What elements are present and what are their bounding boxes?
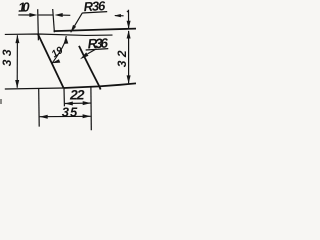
dim 32 main line bbox=[128, 31, 130, 83]
R36 #2 leader bbox=[88, 49, 97, 54]
technical drawing: template profile with dimensions bbox=[0, 0, 136, 132]
top right small arrow tail bbox=[115, 15, 124, 17]
angle 19 arc bbox=[52, 36, 66, 63]
svg-text:22: 22 bbox=[69, 87, 85, 103]
angle arc lower arrowhead bbox=[52, 59, 61, 63]
dim 10: left tail bbox=[18, 14, 31, 16]
dim 22 left arrowhead bbox=[65, 102, 73, 106]
edge speck bottom left bbox=[0, 99, 2, 104]
dim 22 right arrowhead bbox=[83, 101, 91, 105]
part top edge bbox=[54, 29, 136, 32]
svg-text:R36: R36 bbox=[87, 35, 109, 51]
hook at top of dim line bbox=[127, 11, 129, 13]
R36 #1 shelf underline bbox=[82, 12, 107, 13]
dim 35 left extension bbox=[38, 89, 41, 127]
extension line 1 (x=38) bbox=[37, 9, 40, 40]
dim 22 left extension bbox=[63, 88, 65, 106]
dim 10: right tail bbox=[60, 14, 70, 16]
dim 35 right arrowhead bbox=[83, 114, 91, 118]
extension line 2 (x=54) bbox=[53, 9, 55, 32]
part bottom edge bbox=[64, 83, 136, 88]
R36 #1 leader arrowhead bbox=[71, 25, 77, 33]
svg-text:33: 33 bbox=[0, 46, 14, 66]
angle arc upper arrowhead bbox=[64, 36, 68, 44]
extension line left of corner A and horizontal ray of angle bbox=[5, 34, 113, 35]
dim 10: left-pointing arrowhead bbox=[55, 13, 63, 17]
dim 32 up arrowhead bbox=[127, 30, 131, 38]
shared right extension for 22/35 bbox=[90, 87, 92, 130]
part left slant edge bbox=[38, 34, 64, 88]
svg-text:R36: R36 bbox=[83, 0, 106, 14]
svg-text:35: 35 bbox=[62, 105, 78, 120]
dim 32 upper tail line bbox=[128, 10, 130, 28]
dim 32 bottom down arrowhead bbox=[127, 75, 131, 83]
dim 33 line bbox=[16, 35, 18, 88]
dim 33 up arrowhead bbox=[15, 35, 19, 43]
R36 #2 leader arrowhead bbox=[80, 52, 89, 59]
part right arc R36 bbox=[79, 46, 101, 90]
dim 22 line bbox=[65, 102, 91, 104]
dim 33 down arrowhead bbox=[15, 80, 19, 88]
R36 #2 shelf underline bbox=[86, 49, 109, 50]
svg-text:32: 32 bbox=[115, 47, 129, 67]
dim 32 upper down arrowhead bbox=[127, 21, 131, 29]
R36 #1 leader bbox=[71, 13, 83, 32]
dim 35 left arrowhead bbox=[40, 115, 48, 119]
dim 10: right-pointing arrowhead bbox=[29, 13, 37, 17]
bottom edge extended left (extension for 33) bbox=[5, 88, 64, 89]
top right left-pointing arrowhead bbox=[114, 14, 121, 17]
dim 10: middle segment bbox=[39, 14, 53, 16]
svg-text:10: 10 bbox=[18, 0, 31, 15]
dim 35 line bbox=[40, 115, 91, 117]
